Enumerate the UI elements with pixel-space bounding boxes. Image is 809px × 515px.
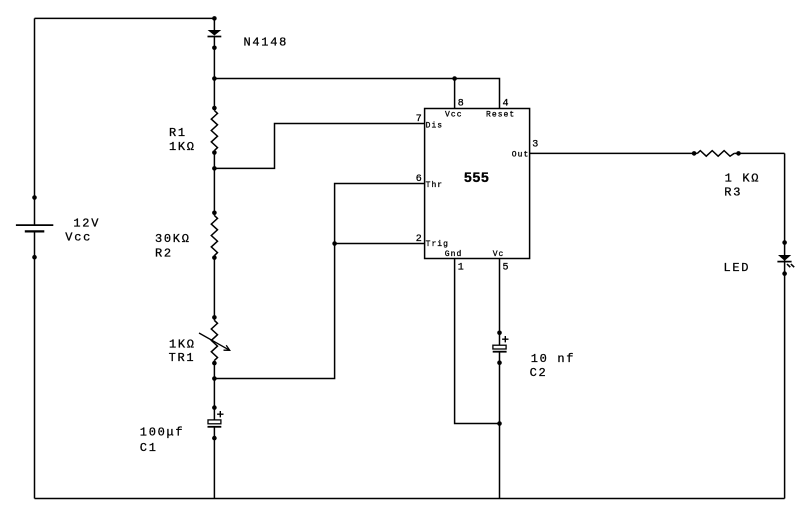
svg-text:3: 3 xyxy=(532,140,538,151)
node: TR1 bottom xyxy=(212,361,217,366)
wire C1 to bottom rail xyxy=(213,427,215,499)
wire bottom rail xyxy=(35,498,785,500)
node: R2 bottom xyxy=(212,255,217,260)
svg-text:Thr: Thr xyxy=(426,181,444,190)
node: C2 top xyxy=(497,331,502,336)
svg-text:TR1: TR1 xyxy=(169,351,196,365)
node: pin8 junction xyxy=(452,76,457,81)
svg-text:4: 4 xyxy=(503,99,509,110)
svg-text:1KΩ: 1KΩ xyxy=(169,140,196,154)
node: diode cathode xyxy=(212,46,217,51)
svg-text:Out: Out xyxy=(512,150,530,159)
node: R3 right xyxy=(736,151,741,156)
LED D2 symbol xyxy=(777,255,794,267)
svg-text:R3: R3 xyxy=(724,186,742,200)
wire R3 to right rail xyxy=(734,152,784,154)
node: Dis junction xyxy=(212,166,217,171)
wire R2 to TR1 xyxy=(213,256,215,321)
node: R1 top xyxy=(212,106,217,111)
wire left rail lower xyxy=(34,231,36,498)
wire right rail xyxy=(784,153,786,498)
resistor R1 zigzag xyxy=(211,111,217,151)
node: C2 bottom xyxy=(497,360,502,365)
svg-text:Gnd: Gnd xyxy=(445,250,463,259)
capacitor C1 symbol xyxy=(208,411,224,427)
svg-text:Vcc: Vcc xyxy=(65,231,92,245)
svg-text:30KΩ: 30KΩ xyxy=(155,232,191,246)
svg-text:555: 555 xyxy=(464,169,489,185)
wire left rail upper xyxy=(34,18,36,225)
node: R2 top xyxy=(212,211,217,216)
svg-text:Vc: Vc xyxy=(493,250,505,259)
capacitor C2 symbol xyxy=(493,336,509,352)
svg-text:C2: C2 xyxy=(530,366,548,380)
wire C2 to bottom rail xyxy=(499,352,501,499)
diode D1 N4148 symbol xyxy=(208,30,222,37)
wire pin 2 Trig stub xyxy=(335,243,425,245)
wire top rail xyxy=(35,17,215,19)
node: LED cathode xyxy=(782,271,787,276)
wire R1 to R2 xyxy=(213,151,215,216)
wire pin 3 Out to R3 xyxy=(530,152,698,154)
battery B1 12V symbol xyxy=(16,225,53,231)
resistor R3 zigzag xyxy=(697,151,734,157)
svg-text:1: 1 xyxy=(458,263,464,274)
svg-text:N4148: N4148 xyxy=(244,36,289,50)
node: LED anode xyxy=(782,240,787,245)
node: TR1 top xyxy=(212,315,217,320)
svg-text:1KΩ: 1KΩ xyxy=(169,338,196,352)
svg-text:8: 8 xyxy=(458,99,464,110)
svg-text:Vcc: Vcc xyxy=(445,110,463,119)
wire pin 1 Gnd down and right xyxy=(455,259,500,424)
node: C1 bottom xyxy=(212,436,217,441)
svg-text:2: 2 xyxy=(416,234,422,245)
wire vcc rail to pins 8 and 4 xyxy=(214,79,499,109)
wire diode to R1 xyxy=(213,36,215,110)
resistor R2 zigzag xyxy=(211,216,217,256)
node: top rail / diode xyxy=(212,16,217,21)
node: battery plus xyxy=(32,195,37,200)
wire pin 7 Dis to R1 bottom xyxy=(214,124,424,169)
node: gnd/C2 junction xyxy=(497,421,502,426)
wire pin 8 stub xyxy=(454,79,456,109)
node: R1 bottom xyxy=(212,150,217,155)
svg-text:100μf: 100μf xyxy=(140,426,185,440)
node: battery minus xyxy=(32,255,37,260)
wire pin 6 Thr to TR1 junction xyxy=(214,184,424,379)
svg-text:R2: R2 xyxy=(155,247,173,261)
svg-text:R1: R1 xyxy=(169,126,187,140)
svg-text:Trig: Trig xyxy=(426,240,449,249)
svg-text:5: 5 xyxy=(503,263,509,274)
node: pin2/pin6 junction xyxy=(332,241,337,246)
svg-text:C1: C1 xyxy=(140,441,158,455)
trimmer TR1 zigzag xyxy=(211,320,217,360)
wire mid column top xyxy=(213,18,215,30)
svg-text:12V: 12V xyxy=(73,217,100,231)
wire TR1 to C1 xyxy=(213,360,215,420)
svg-text:Dis: Dis xyxy=(426,122,444,131)
wire pin 5 Vc to C2 xyxy=(499,259,501,346)
svg-text:6: 6 xyxy=(416,174,422,185)
node: R3 left xyxy=(692,151,697,156)
trimmer TR1 wiper arrow xyxy=(199,333,230,350)
node: trig junction mid column xyxy=(212,376,217,381)
node: vcc wire junction xyxy=(212,76,217,81)
svg-text:Reset: Reset xyxy=(486,110,515,119)
svg-text:LED: LED xyxy=(724,261,751,275)
IC U1 555 timer body xyxy=(425,109,530,259)
svg-text:1 KΩ: 1 KΩ xyxy=(725,171,761,185)
svg-text:7: 7 xyxy=(416,114,422,125)
node: C1 top xyxy=(212,405,217,410)
svg-text:10 nf: 10 nf xyxy=(531,352,576,366)
